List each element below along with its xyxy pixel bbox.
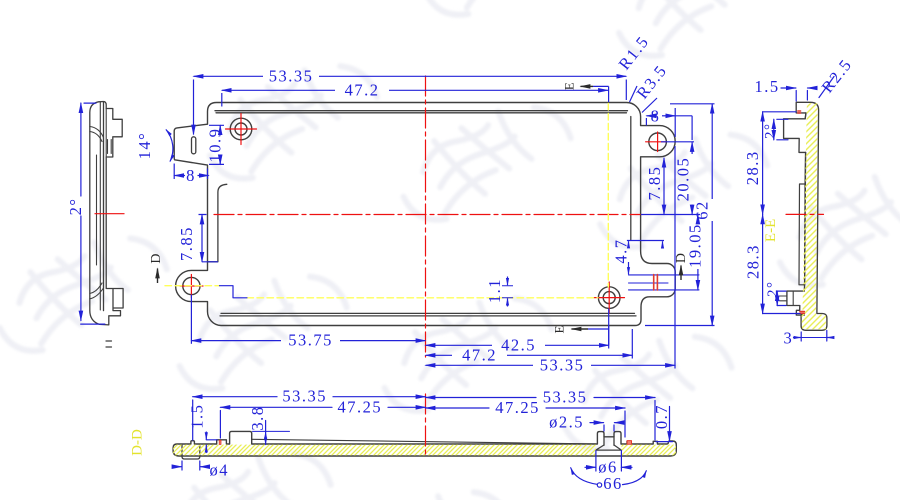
svg-text:D: D	[674, 253, 689, 263]
EE-VIEW	[550, 55, 900, 348]
latch slot extension lines	[629, 275, 700, 290]
dim 7.85 right	[663, 158, 665, 215]
svg-text:R2.5: R2.5	[818, 55, 856, 96]
dim 20.05	[691, 142, 693, 154]
DD-VIEW	[130, 387, 703, 493]
snap boss inner lines	[780, 291, 794, 305]
svg-text:E: E	[562, 82, 577, 90]
inner fold arcs top	[90, 109, 106, 221]
right extension lines	[627, 104, 715, 326]
hidden line yellow at ear	[165, 285, 220, 287]
svg-text:D: D	[149, 253, 164, 263]
svg-text:66: 66	[603, 474, 623, 493]
dim 2deg left	[81, 103, 105, 324]
angle 14 arc	[166, 130, 173, 162]
DD dims	[176, 397, 673, 485]
LEFT-VIEW	[66, 102, 124, 348]
dim 4.7	[628, 241, 630, 246]
svg-text:42.5: 42.5	[501, 335, 536, 354]
svg-text:D-D: D-D	[130, 429, 146, 456]
hidden line yellow vertical	[607, 104, 609, 288]
svg-text:7.85: 7.85	[177, 226, 196, 261]
hole walls	[604, 437, 614, 445]
inner edge of strip	[804, 113, 806, 315]
svg-text:47.25: 47.25	[337, 397, 382, 416]
inner fold arcs bottom	[90, 220, 104, 299]
svg-text:2°: 2°	[765, 281, 781, 298]
red nub DD left bump	[219, 440, 221, 444]
svg-text:10.9: 10.9	[206, 128, 225, 163]
inner slot lines	[97, 102, 112, 310]
svg-text:62: 62	[693, 200, 712, 220]
left pocket edge	[208, 184, 227, 261]
dim 10.9	[219, 125, 221, 128]
MAIN-VIEW	[165, 76, 699, 357]
D-markers arrows dark	[158, 86, 682, 329]
svg-text:2°: 2°	[763, 122, 779, 139]
hole bottom-right counterbored	[598, 287, 620, 309]
red slot in bottom-right ear	[654, 275, 658, 291]
svg-text:28.3: 28.3	[743, 150, 762, 185]
svg-text:8: 8	[186, 166, 196, 185]
svg-text:7.85: 7.85	[645, 166, 664, 201]
hole top-right ear	[649, 133, 667, 151]
dim 47.2 bottom	[426, 354, 453, 356]
svg-text:53.75: 53.75	[288, 331, 333, 350]
svg-text:E: E	[552, 325, 567, 333]
dim 47.2 top	[222, 89, 335, 91]
dim 53.75	[191, 340, 281, 342]
centerline horizontal	[214, 214, 640, 216]
red centerline DD	[425, 394, 427, 458]
svg-text:ø2.5: ø2.5	[549, 413, 584, 432]
dim 19.05	[697, 215, 699, 222]
svg-text:1.5: 1.5	[188, 404, 207, 429]
dim 8 left	[174, 175, 185, 177]
svg-text:E-E: E-E	[763, 219, 779, 242]
svg-text:8: 8	[651, 106, 661, 125]
small bumps mid	[106, 341, 112, 347]
svg-text:47.25: 47.25	[495, 398, 540, 417]
dim 53.35 bottom	[426, 364, 534, 366]
centerline EE	[786, 213, 824, 215]
left profile outline	[90, 102, 123, 325]
EE dims	[763, 77, 834, 342]
top rim lines	[215, 111, 628, 113]
hidden line yellow horizontal	[247, 297, 598, 299]
svg-text:ø4: ø4	[210, 461, 230, 480]
svg-text:47.2: 47.2	[345, 81, 380, 100]
strip outline	[173, 431, 676, 456]
MAIN-VIEW-TEXTS	[135, 32, 712, 374]
red nubs EE	[798, 111, 801, 113]
middle plate line	[799, 184, 805, 285]
svg-text:53.35: 53.35	[543, 388, 588, 407]
section marker E top connector	[593, 86, 609, 102]
svg-text:0.7: 0.7	[652, 404, 671, 429]
tab slot top-left	[192, 137, 196, 154]
svg-text:4.7: 4.7	[612, 238, 631, 263]
leaders R1.5 R3.5	[630, 86, 658, 113]
dim 62	[711, 104, 713, 199]
section marker E bottom connector	[588, 326, 609, 345]
red nub DD	[627, 441, 631, 445]
dim 7.85 left	[201, 215, 203, 262]
part outer outline	[174, 102, 675, 325]
red centerline left view	[95, 213, 124, 215]
svg-text:20.05: 20.05	[674, 157, 693, 202]
svg-text:R3.5: R3.5	[633, 61, 671, 102]
svg-text:53.35: 53.35	[269, 67, 314, 86]
taper top surface line	[252, 439, 596, 444]
svg-text:1.5: 1.5	[754, 77, 779, 96]
centerline vertical	[425, 76, 427, 357]
countersink cone	[596, 445, 622, 450]
hole bottom-left ear	[183, 277, 200, 294]
dim 1.1	[507, 277, 509, 286]
right rim edge	[630, 117, 632, 241]
svg-text:47.2: 47.2	[462, 345, 497, 364]
svg-text:3: 3	[784, 329, 794, 348]
svg-text:1.1: 1.1	[485, 278, 504, 303]
hole top-left counterbored	[230, 118, 252, 140]
blue step line at ear	[220, 286, 248, 298]
svg-text:28.3: 28.3	[743, 244, 762, 279]
svg-text:2°: 2°	[66, 198, 85, 216]
svg-text:14°: 14°	[135, 132, 154, 160]
dim 8 top right ear	[646, 115, 650, 117]
dim 42.5 bottom	[426, 344, 493, 346]
dim 53.35 top	[194, 75, 264, 77]
svg-text:53.35: 53.35	[282, 387, 327, 406]
bottom rim lines	[220, 313, 636, 316]
MAIN-VIEW-DIMS	[166, 76, 715, 368]
svg-text:53.35: 53.35	[540, 355, 585, 374]
svg-text:3.8: 3.8	[248, 405, 267, 430]
phi4 boss below left	[182, 445, 200, 459]
section strip hatched	[784, 102, 827, 330]
